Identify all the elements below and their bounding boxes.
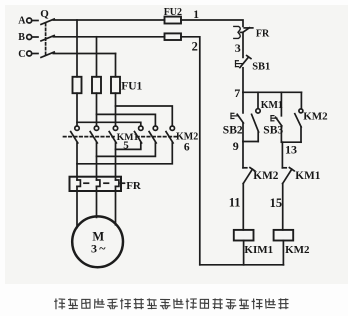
svg-text:9: 9 [233,139,239,153]
bottom rail [200,264,284,266]
svg-text:FR: FR [256,29,270,40]
terminal A [27,18,32,23]
wire below FU1-2 [96,93,98,126]
svg-text:15: 15 [270,196,283,210]
wire row A [53,19,164,21]
svg-text:B: B [18,32,25,43]
svg-text:KM1: KM1 [295,170,320,182]
svg-text:SB3: SB3 [263,124,283,136]
wire motor W below FR [115,191,117,225]
SB2 actuator [231,113,237,118]
wire coil KM2 bottom [282,241,284,265]
coil KM1 [234,230,254,241]
thermal relay FR NC contact [243,28,253,33]
svg-text:Q: Q [40,8,49,20]
wire motor lead V [96,143,98,177]
contactor KM1 main pole 1 [71,126,80,143]
wire row B [53,36,164,38]
svg-text:2: 2 [192,39,198,53]
svg-text:FU1: FU1 [121,81,142,93]
SB1 actuator [236,61,243,67]
caption [54,298,288,309]
wire KM2 pole2 bottom crossover to V [97,143,156,156]
pushbutton SB2 NO [237,92,243,141]
wire coil KM1 bottom [243,241,245,265]
fuse FU2-2 [165,33,182,40]
wire phase B drop [96,37,98,77]
fuse FU2-1 [165,17,182,24]
mechanical link dashed KM2 [137,136,177,138]
FR heater element 1 [77,177,80,191]
motor M circle [72,216,123,267]
wire KM1 NC to coil [282,184,284,230]
wire KM2 pole1 bottom crossover to W [116,143,141,149]
contactor KM2 main pole 1 [135,126,144,143]
wire KM2 NC to coil [242,184,244,230]
fuse FU1-1 [73,77,82,93]
contactor KM2 main pole 3 [166,126,175,143]
FR heater link dashes [84,182,125,184]
terminal B [27,35,32,40]
wire below FU1-3 [115,93,117,126]
svg-text:KIM1: KIM1 [244,244,273,256]
svg-text:1: 1 [193,9,199,21]
wire phase C drop [115,54,117,77]
fuse FU1-2 [92,77,101,93]
switch Q pole C [32,52,54,57]
switch Q pole B [32,36,54,41]
svg-text:SB2: SB2 [223,125,243,137]
contact KM1 NC interlock [282,168,294,184]
wire crossover top A to KM2 pole1 [77,122,141,126]
wire motor V below FR [96,191,98,217]
svg-text:~: ~ [99,241,106,255]
switch Q link dashed [45,24,47,56]
contactor KM1 main pole 2 [90,126,99,143]
wire node 9 down [242,142,244,168]
svg-text:7: 7 [234,86,240,100]
wire motor lead W [115,143,117,177]
svg-text:KM1: KM1 [261,100,283,111]
wire motor U below FR [76,191,78,228]
contact KM2 NC interlock [243,168,255,184]
svg-text:13: 13 [285,143,297,157]
contactor KM2 main pole 2 [149,126,157,143]
contactor KM1 main pole 3 [109,126,118,143]
wire crossover top B to KM2 pole2 [97,114,156,125]
svg-text:KM2: KM2 [253,170,278,182]
node 9 rail [243,141,258,143]
node 13 rail [281,141,301,143]
svg-text:KM2: KM2 [303,111,328,123]
svg-text:FU2: FU2 [164,7,182,18]
svg-text:6: 6 [184,141,190,153]
wire SB1 to node 7 [242,68,244,93]
wire phase A drop [76,20,78,77]
FR heater element 2 [97,177,100,191]
thermal relay FR NC contact heater brace [234,26,243,38]
svg-text:C: C [18,49,25,60]
wire below FU1-1 [76,93,78,126]
wire FR to SB1 [242,32,244,57]
wire 2: row B after FU2-2 down to bottom rail [181,37,200,265]
wire motor lead U [76,143,78,177]
wire row C [53,53,115,55]
node 7 rail [243,91,301,93]
wire crossover top C to KM2 pole3 [116,106,173,126]
pushbutton SB3 NO [276,92,282,142]
coil KM2 [274,230,294,241]
svg-text:SB1: SB1 [252,61,270,72]
svg-text:3: 3 [235,41,241,55]
FR heater element 3 [116,177,119,191]
svg-text:KM2: KM2 [285,244,310,256]
terminal C [27,51,32,56]
fuse FU1-3 [111,77,120,93]
contact KM2 aux NO self-hold [295,92,303,142]
wire row A after FU2-1 to corner [181,20,243,26]
svg-text:11: 11 [229,196,241,210]
mechanical link dashed KM1 [64,136,115,138]
pushbutton SB1 NC [240,56,251,68]
contact KM1 aux NO self-hold [252,92,261,141]
wire KM2 pole3 bottom crossover to U [77,143,172,164]
svg-text:FR: FR [126,180,142,192]
svg-text:3: 3 [91,242,97,256]
SB3 actuator [271,116,277,121]
switch Q pole A [32,19,54,24]
wire node 13 down [281,142,283,168]
svg-text:A: A [18,16,26,27]
svg-text:5: 5 [123,140,129,152]
thermal relay FR heater box [70,177,122,191]
